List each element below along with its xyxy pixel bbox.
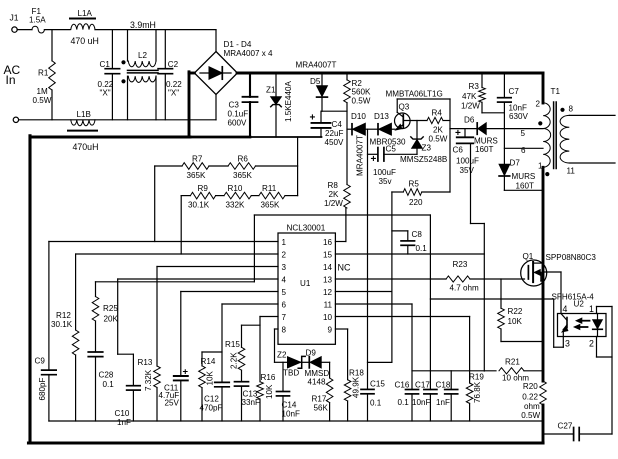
svg-text:4.7 ohm: 4.7 ohm [450, 284, 480, 293]
svg-text:47K: 47K [462, 92, 477, 101]
wire [297, 137, 299, 196]
svg-text:470uH: 470uH [73, 142, 99, 152]
wire [524, 370, 543, 372]
label 3.9mH [130, 20, 156, 30]
resistor R25 [92, 297, 118, 324]
capacitor C16 [395, 304, 419, 421]
U1 pin 4 number [282, 276, 287, 285]
resistor R12 [51, 311, 79, 421]
choke L2 core [128, 70, 159, 73]
U2 phototransistor [561, 314, 568, 337]
wire [443, 120, 450, 122]
wire x430 drop [429, 215, 431, 390]
svg-text:U2: U2 [574, 300, 585, 309]
svg-text:1.5KE440A: 1.5KE440A [284, 80, 293, 122]
svg-text:10nF: 10nF [412, 398, 431, 407]
svg-text:6: 6 [282, 301, 287, 310]
label MRA4007T [296, 61, 337, 70]
capacitor C12 [200, 382, 230, 421]
svg-text:C15: C15 [370, 380, 385, 389]
L2 phase dots [121, 60, 125, 83]
capacitor C10 [115, 386, 141, 427]
wire thick DC+ rail [237, 72, 543, 75]
wire [322, 110, 347, 112]
svg-text:160T: 160T [516, 182, 535, 191]
inductor L1B [68, 110, 98, 152]
wire [449, 99, 451, 192]
svg-text:2.2K: 2.2K [230, 352, 239, 369]
IC U1 NCL30001 [278, 224, 335, 345]
svg-text:+: + [455, 128, 461, 139]
wire [251, 195, 259, 197]
svg-text:"X": "X" [100, 89, 111, 98]
svg-text:25V: 25V [165, 399, 180, 408]
svg-text:332K: 332K [226, 201, 246, 210]
svg-text:R16: R16 [261, 373, 276, 382]
wire pin3 [157, 267, 278, 367]
resistor R4 [427, 109, 448, 144]
wire thick bridge return [189, 72, 194, 137]
svg-text:C2: C2 [168, 60, 179, 69]
svg-text:0.1: 0.1 [103, 380, 115, 389]
resistor R7 [182, 155, 209, 181]
wire [51, 90, 53, 120]
transistor Q3 [386, 90, 443, 130]
wire [482, 112, 504, 114]
choke L2 winding A [128, 30, 157, 68]
svg-text:15: 15 [323, 251, 333, 260]
svg-text:D5: D5 [310, 77, 321, 86]
wire ground bus [49, 420, 543, 422]
wire Q3 base [403, 120, 427, 122]
wire thick to T1 [542, 73, 545, 103]
transistor Q1 [521, 252, 597, 286]
svg-text:2K: 2K [433, 126, 444, 135]
svg-text:365K: 365K [261, 201, 281, 210]
svg-text:L1B: L1B [77, 110, 91, 119]
svg-text:Z2: Z2 [277, 351, 287, 360]
svg-text:4: 4 [282, 276, 287, 285]
svg-text:3: 3 [565, 339, 570, 349]
bridge D1-D4 [194, 40, 273, 95]
svg-text:D7: D7 [510, 159, 521, 168]
wire thick from T1 [542, 167, 545, 381]
svg-text:L1A: L1A [78, 9, 93, 18]
svg-text:C12: C12 [204, 395, 219, 404]
svg-text:1: 1 [282, 238, 287, 247]
svg-text:10K: 10K [206, 370, 215, 385]
svg-text:1nF: 1nF [117, 418, 131, 427]
wire pin9 [335, 329, 347, 380]
svg-text:R6: R6 [238, 155, 249, 164]
U1 pin 1 number [282, 238, 287, 247]
svg-text:R9: R9 [198, 184, 209, 193]
svg-text:11: 11 [324, 301, 333, 310]
U1 pin 9 number [327, 326, 332, 335]
svg-text:D13: D13 [374, 112, 389, 121]
svg-text:Q3: Q3 [399, 103, 410, 112]
wire pin8 [275, 329, 288, 362]
label MMSZ5248B [400, 155, 447, 164]
svg-text:1nF: 1nF [436, 398, 450, 407]
svg-text:C3: C3 [229, 101, 240, 110]
svg-text:630V: 630V [509, 112, 529, 121]
resistor R6 [228, 155, 256, 181]
wire [95, 321, 97, 352]
svg-text:56K: 56K [314, 404, 329, 413]
svg-text:R4: R4 [432, 109, 443, 118]
svg-text:R20: R20 [523, 382, 538, 391]
svg-text:365K: 365K [187, 171, 207, 180]
svg-text:2: 2 [536, 100, 541, 109]
T1 core [554, 102, 557, 169]
U1 pin 5 number [282, 288, 287, 297]
resistor R18 [344, 369, 364, 422]
wire pin5 [181, 292, 278, 377]
svg-text:9: 9 [327, 326, 332, 335]
wire [368, 153, 378, 155]
wire gate [470, 278, 525, 280]
svg-text:"X": "X" [168, 89, 179, 98]
zener Z2 [277, 351, 309, 378]
diode D10 [351, 112, 366, 135]
wire [346, 103, 348, 185]
svg-text:MURS: MURS [474, 136, 498, 145]
svg-text:C7: C7 [509, 87, 520, 96]
resistor R17 [312, 378, 333, 421]
svg-text:C14: C14 [282, 401, 297, 410]
resistor R22 [498, 279, 543, 342]
svg-text:100uF: 100uF [373, 168, 396, 177]
T1 primary winding [543, 103, 550, 168]
wire [391, 128, 394, 130]
zener Z1 [266, 73, 293, 137]
capacitor C3 [228, 73, 258, 137]
wire [504, 189, 543, 191]
zener Z3 [411, 121, 432, 155]
svg-text:R15: R15 [225, 340, 240, 349]
svg-text:8: 8 [282, 326, 287, 335]
wire pin2 [76, 254, 278, 330]
svg-text:12: 12 [323, 288, 333, 297]
svg-text:In: In [6, 73, 16, 87]
wire x367 drop [367, 129, 369, 389]
svg-text:NCL30001: NCL30001 [287, 224, 326, 233]
svg-text:C10: C10 [115, 409, 130, 418]
svg-text:MRA4007 x 4: MRA4007 x 4 [224, 49, 274, 58]
svg-text:30.1K: 30.1K [51, 320, 73, 329]
svg-text:R19: R19 [469, 373, 484, 382]
svg-text:49.9K: 49.9K [352, 376, 361, 398]
wire pin11 [335, 303, 412, 305]
diode D7 [499, 159, 536, 191]
wire pin12 [335, 291, 392, 293]
svg-text:160T: 160T [475, 145, 494, 154]
svg-text:0.22: 0.22 [522, 393, 538, 402]
svg-text:R7: R7 [192, 155, 203, 164]
svg-text:R17: R17 [312, 395, 327, 404]
wire R25 branch [95, 282, 97, 297]
svg-text:0.5W: 0.5W [429, 135, 448, 144]
wire [365, 128, 378, 130]
svg-text:L2: L2 [138, 51, 148, 60]
U1 pin 10 number [323, 313, 333, 322]
wire secondary out- [569, 162, 615, 164]
svg-text:10: 10 [323, 313, 333, 322]
svg-text:470pF: 470pF [200, 404, 223, 413]
svg-text:MMSZ5248B: MMSZ5248B [400, 155, 447, 164]
capacitor C7 [498, 73, 529, 121]
svg-text:33nF: 33nF [242, 398, 261, 407]
svg-text:0.5W: 0.5W [521, 411, 540, 420]
svg-text:SPP08N80C3: SPP08N80C3 [546, 253, 597, 262]
svg-text:C5: C5 [386, 145, 397, 154]
svg-text:R21: R21 [505, 358, 520, 367]
wire pin7 [260, 317, 278, 382]
wire U2 pin2 [597, 337, 613, 358]
wire [44, 29, 70, 31]
svg-text:U1: U1 [300, 279, 311, 288]
resistor R2 [344, 73, 371, 106]
svg-text:D6: D6 [464, 115, 475, 124]
wire net215 [96, 215, 431, 282]
svg-text:C8: C8 [412, 230, 423, 239]
svg-text:R18: R18 [349, 369, 364, 378]
resistor R16 [257, 373, 276, 421]
wire right drop [611, 307, 613, 435]
wire [285, 195, 298, 197]
resistor R14 [199, 352, 222, 421]
svg-text:680pF: 680pF [38, 377, 47, 400]
svg-text:MMBTA06LT1G: MMBTA06LT1G [386, 90, 443, 99]
wire [17, 29, 32, 31]
terminal J1 pin1 [12, 27, 17, 32]
resistor R5 [392, 180, 450, 208]
wire thick top-left [30, 136, 190, 139]
svg-text:T1: T1 [551, 87, 561, 96]
wire U2 pin3 route [430, 299, 563, 347]
diode D6 [464, 115, 498, 154]
svg-text:C16: C16 [395, 381, 410, 390]
svg-text:NC: NC [338, 263, 351, 273]
capacitor C15 [361, 380, 385, 422]
svg-text:+: + [371, 154, 377, 165]
svg-text:1M: 1M [37, 87, 49, 96]
wire top rail [95, 29, 216, 31]
capacitor C17 [412, 381, 437, 422]
wire x391 drop [368, 192, 392, 362]
wire [215, 95, 217, 120]
svg-text:Z1: Z1 [266, 86, 276, 95]
svg-text:30.1K: 30.1K [188, 201, 210, 210]
svg-text:0.1uF: 0.1uF [228, 110, 249, 119]
svg-text:10K: 10K [508, 317, 523, 326]
inductor L1A [70, 9, 99, 46]
capacitor C18 [436, 371, 458, 421]
wire tap5b [486, 128, 543, 130]
svg-text:3: 3 [282, 263, 287, 272]
svg-text:35v: 35v [379, 177, 393, 186]
svg-text:14: 14 [323, 263, 333, 272]
svg-text:J1: J1 [10, 13, 19, 23]
diode D9 [305, 349, 330, 387]
U1 pin 8 number [282, 326, 287, 335]
svg-text:R10: R10 [228, 184, 243, 193]
diode D13 [374, 112, 391, 135]
svg-text:+: + [310, 113, 316, 124]
resistor R10 [224, 184, 251, 210]
wire sense line [412, 370, 496, 372]
svg-text:ohm: ohm [524, 402, 540, 411]
svg-text:100uF: 100uF [456, 157, 479, 166]
svg-text:+: + [183, 367, 189, 378]
resistor R8 [324, 181, 350, 208]
label MRA4007T vertical [356, 135, 365, 176]
U1 pin 12 number [323, 288, 333, 297]
svg-text:C6: C6 [453, 146, 464, 155]
svg-text:10K: 10K [265, 384, 274, 399]
svg-text:D10: D10 [351, 112, 366, 121]
T1 phase dots [538, 108, 564, 176]
svg-text:R3: R3 [469, 82, 480, 91]
capacitor C5 [371, 145, 397, 187]
wire U2 pin4 [543, 272, 561, 314]
capacitor C2 [158, 30, 182, 120]
wire pin1 [49, 242, 278, 371]
svg-text:7: 7 [282, 313, 287, 322]
svg-text:0.1: 0.1 [398, 398, 410, 407]
U1 pin 14 number [323, 263, 333, 272]
svg-text:C9: C9 [35, 357, 46, 366]
resistor R23 [446, 260, 479, 293]
wire mid return [189, 136, 322, 139]
svg-text:R25: R25 [103, 304, 118, 313]
svg-text:C28: C28 [99, 371, 114, 380]
svg-text:0.1: 0.1 [370, 399, 382, 408]
svg-text:C17: C17 [415, 381, 430, 390]
svg-text:R8: R8 [328, 181, 339, 190]
wire secondary out+ [569, 114, 615, 116]
svg-text:D1 - D4: D1 - D4 [224, 40, 252, 49]
connector J1 labels [4, 13, 21, 88]
svg-text:R14: R14 [201, 357, 216, 366]
svg-text:D9: D9 [306, 349, 317, 358]
svg-text:2: 2 [282, 251, 287, 260]
svg-text:450V: 450V [325, 138, 345, 147]
capacitor C9 [35, 357, 57, 422]
svg-text:22uF: 22uF [325, 129, 344, 138]
svg-text:0.5W: 0.5W [33, 96, 52, 105]
capacitor C13 [235, 382, 261, 421]
wire tap5 [450, 128, 477, 130]
fuse F1 [29, 7, 46, 33]
wire pin16 [335, 208, 346, 242]
svg-text:R11: R11 [262, 184, 277, 193]
svg-text:13: 13 [323, 276, 333, 285]
svg-text:470 uH: 470 uH [71, 36, 99, 46]
svg-text:0.1: 0.1 [416, 244, 428, 253]
svg-text:11: 11 [567, 167, 576, 176]
U1 pin 13 number [323, 276, 333, 285]
wire thick bottom border [29, 441, 544, 444]
resistor R21 [499, 358, 529, 383]
svg-text:8: 8 [569, 105, 574, 114]
svg-text:4: 4 [563, 304, 568, 314]
svg-text:C4: C4 [332, 120, 343, 129]
wire bottom rail [19, 119, 216, 121]
wire [216, 195, 224, 197]
svg-text:R23: R23 [453, 260, 468, 269]
terminal J1 pin2 [13, 117, 18, 122]
capacitor C8 [392, 230, 427, 254]
svg-text:R13: R13 [138, 358, 153, 367]
svg-text:10nF: 10nF [282, 410, 301, 419]
svg-text:1/2W: 1/2W [461, 102, 480, 111]
svg-text:76.8K: 76.8K [473, 381, 482, 403]
svg-text:16: 16 [323, 238, 333, 247]
svg-text:220: 220 [409, 198, 423, 207]
resistor R9 [188, 184, 216, 210]
wire Q3 collector [397, 98, 450, 100]
label L2 [138, 51, 148, 60]
svg-text:R22: R22 [508, 307, 523, 316]
wire [347, 128, 352, 130]
resistor R15 [225, 340, 245, 382]
resistor R11 [259, 184, 285, 210]
wire [471, 143, 485, 371]
wire [321, 362, 329, 378]
wire pin4 [118, 279, 278, 386]
svg-text:1/2W: 1/2W [324, 199, 343, 208]
svg-text:TBD: TBD [283, 369, 299, 378]
svg-text:0.5W: 0.5W [352, 97, 371, 106]
wire pin13 drive [335, 278, 446, 280]
resistor R20 [521, 381, 546, 420]
svg-text:4148: 4148 [308, 378, 327, 387]
svg-text:2: 2 [589, 339, 594, 349]
svg-text:1.5A: 1.5A [29, 16, 46, 25]
T1 secondary winding [560, 115, 569, 163]
wire [51, 30, 53, 61]
svg-text:5: 5 [521, 129, 526, 138]
svg-text:3.9mH: 3.9mH [130, 20, 156, 30]
choke L2 winding B [128, 76, 157, 120]
wire pin15 Vcc [335, 253, 484, 255]
svg-text:7.32K: 7.32K [144, 369, 153, 391]
wire [181, 195, 190, 197]
svg-text:35V: 35V [460, 166, 475, 175]
wire thick R20 bottom [542, 405, 545, 443]
U2 arrows [574, 318, 589, 329]
U1 pin 11 number [324, 301, 333, 310]
diode D5 [310, 73, 327, 111]
svg-text:365K: 365K [233, 171, 253, 180]
U1 pin 7 number [282, 313, 287, 322]
capacitor C6 [453, 128, 480, 175]
wire [256, 165, 298, 167]
T1 labels [521, 87, 576, 176]
wire R15 branch [242, 325, 261, 347]
svg-text:MRA4007T: MRA4007T [356, 135, 365, 176]
wire thick left border [28, 136, 31, 443]
svg-text:600V: 600V [228, 119, 248, 128]
U1 pin 2 number [282, 251, 287, 260]
wire pin10 [335, 316, 469, 318]
wire [155, 165, 182, 167]
wire [180, 196, 182, 254]
wire [384, 153, 417, 155]
label MBR0530 [370, 138, 406, 147]
